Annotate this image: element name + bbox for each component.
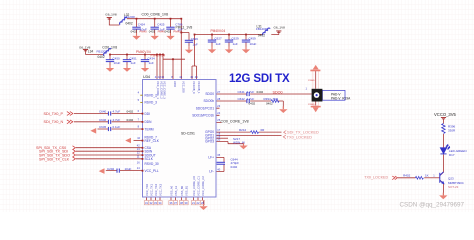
svg-text:VSS_A0: VSS_A0 [169, 185, 173, 196]
svg-text:0402: 0402 [126, 22, 133, 26]
svg-text:SDO1b/PCO1b: SDO1b/PCO1b [192, 114, 214, 118]
svg-text:G6_1V8: G6_1V8 [274, 25, 286, 29]
svg-text:0402: 0402 [266, 102, 273, 106]
svg-text:PGND: PGND [308, 80, 315, 82]
svg-text:0402: 0402 [149, 29, 156, 33]
svg-text:VCC_PLL: VCC_PLL [145, 169, 159, 173]
svg-text:0402: 0402 [165, 29, 172, 33]
svg-text:VCC_DDI: VCC_DDI [181, 81, 185, 93]
svg-text:PGND: PGND [308, 104, 315, 106]
svg-text:1uF: 1uF [216, 42, 221, 46]
svg-text:VCCOB_1: VCCOB_1 [197, 81, 201, 94]
svg-text:DDN: DDN [145, 120, 153, 124]
svg-text:C645: C645 [99, 125, 107, 129]
svg-text:WDN_IN: WDN_IN [233, 141, 245, 145]
svg-text:CO0_CORE_1V8: CO0_CORE_1V8 [142, 13, 169, 17]
svg-text:R212: R212 [239, 128, 247, 132]
svg-text:VCC_CORE_C1: VCC_CORE_C1 [196, 176, 200, 196]
svg-text:REF_CLK: REF_CLK [145, 139, 160, 143]
svg-text:1uF: 1uF [131, 61, 136, 65]
svg-text:C459: C459 [249, 37, 257, 41]
svg-text:VSS_A1: VSS_A1 [174, 185, 178, 196]
svg-text:PM40V.04: PM40V.04 [211, 29, 226, 33]
svg-text:10uF: 10uF [114, 61, 121, 65]
svg-text:C640: C640 [99, 110, 107, 114]
svg-text:R402: R402 [403, 173, 411, 177]
svg-text:CSDN @qq_29479697: CSDN @qq_29479697 [400, 201, 465, 208]
svg-text:VCCO_3V5: VCCO_3V5 [434, 112, 457, 117]
svg-text:PM40: PM40 [139, 29, 147, 33]
svg-text:RSVD_2: RSVD_2 [145, 93, 158, 97]
svg-text:SDI_TX0_N: SDI_TX0_N [44, 120, 64, 124]
svg-text:12G SDI TX: 12G SDI TX [229, 73, 290, 85]
svg-text:SDO0: SDO0 [205, 92, 214, 96]
svg-text:1uF: 1uF [233, 42, 238, 46]
svg-text:VCC_TX2: VCC_TX2 [154, 183, 158, 196]
svg-text:VCC_TX1: VCC_TX1 [149, 183, 153, 196]
svg-text:0402: 0402 [231, 165, 238, 169]
svg-text:0402: 0402 [131, 29, 138, 33]
svg-text:0.1uF: 0.1uF [113, 125, 121, 129]
svg-text:RSVD_3: RSVD_3 [145, 101, 158, 105]
svg-text:FB120R: FB120R [97, 49, 109, 53]
svg-text:10uF: 10uF [125, 167, 132, 171]
svg-text:VCC_CORE_C2: VCC_CORE_C2 [201, 176, 205, 196]
svg-text:0402: 0402 [98, 55, 105, 59]
svg-text:4.7uF: 4.7uF [113, 118, 121, 122]
svg-text:10uF: 10uF [250, 42, 257, 46]
svg-text:PM40: PM40 [173, 29, 181, 33]
svg-text:TERM: TERM [145, 127, 154, 131]
svg-text:C786: C786 [175, 23, 183, 27]
svg-text:SOT-23: SOT-23 [448, 185, 459, 189]
svg-text:SPI_SDI_TX_CLK: SPI_SDI_TX_CLK [39, 157, 70, 161]
svg-text:C627: C627 [215, 37, 223, 41]
svg-text:0402: 0402 [257, 90, 264, 94]
svg-text:GPO3: GPO3 [205, 140, 214, 144]
svg-text:C450: C450 [113, 56, 121, 60]
svg-text:MMBT3904: MMBT3904 [448, 181, 464, 185]
svg-text:SCLK: SCLK [145, 157, 154, 161]
svg-text:0402: 0402 [127, 118, 134, 122]
svg-text:VCC_CORE_C0: VCC_CORE_C0 [192, 176, 196, 196]
svg-text:FB120R: FB120R [124, 15, 136, 19]
svg-text:4.7uF: 4.7uF [247, 90, 255, 94]
svg-text:R394: R394 [264, 97, 272, 101]
svg-text:1uF: 1uF [193, 42, 198, 46]
svg-text:SDO0: SDO0 [273, 90, 283, 94]
svg-text:0402: 0402 [258, 33, 265, 37]
svg-text:C629: C629 [232, 37, 240, 41]
svg-text:LF+: LF+ [208, 156, 214, 160]
svg-text:SDO0b: SDO0b [204, 99, 215, 103]
svg-text:SDO1/PCO1: SDO1/PCO1 [196, 106, 214, 110]
svg-text:VSS_B0: VSS_B0 [180, 185, 184, 196]
svg-text:4.7uF: 4.7uF [247, 97, 255, 101]
svg-text:0402: 0402 [127, 110, 134, 114]
svg-text:VCCOB_0: VCCOB_0 [192, 81, 196, 94]
svg-text:C626: C626 [191, 37, 199, 41]
svg-text:TX0_LOCKED: TX0_LOCKED [364, 175, 388, 179]
svg-text:VCC_TX0: VCC_TX0 [145, 183, 149, 196]
svg-text:C451: C451 [130, 56, 138, 60]
svg-text:PAD-V_R19A: PAD-V_R19A [331, 96, 351, 100]
svg-text:C425: C425 [157, 23, 165, 27]
svg-text:C202: C202 [107, 167, 115, 171]
svg-text:LF-: LF- [209, 170, 214, 174]
svg-text:C641: C641 [238, 90, 246, 94]
svg-text:C642: C642 [238, 97, 246, 101]
svg-text:D17: D17 [449, 153, 455, 157]
svg-text:75R: 75R [273, 97, 279, 101]
svg-text:UDO: UDO [173, 81, 177, 87]
svg-text:VCC_CORE_3: VCC_CORE_3 [163, 81, 167, 99]
svg-text:CO0_CORE_1V8: CO0_CORE_1V8 [221, 119, 249, 123]
svg-text:SDI_TX0_P: SDI_TX0_P [44, 112, 64, 116]
svg-text:PM40V.04: PM40V.04 [136, 50, 151, 54]
svg-text:C646: C646 [99, 118, 107, 122]
svg-text:SD-C291: SD-C291 [181, 132, 195, 136]
svg-text:FB120R: FB120R [256, 27, 268, 31]
svg-text:VCC_TX3: VCC_TX3 [158, 183, 162, 196]
svg-text:U34: U34 [143, 75, 150, 79]
svg-text:RSVD_30: RSVD_30 [145, 162, 159, 166]
svg-text:G6_1V8: G6_1V8 [105, 13, 117, 17]
svg-text:1uF: 1uF [149, 61, 154, 65]
svg-text:VSS_B1: VSS_B1 [184, 185, 188, 196]
svg-text:TX0_LOCKED: TX0_LOCKED [287, 135, 312, 140]
svg-text:0402: 0402 [249, 102, 256, 106]
svg-text:330R: 330R [448, 129, 456, 133]
svg-text:C424: C424 [138, 23, 146, 27]
svg-text:1K: 1K [425, 174, 429, 178]
svg-text:4.7uF: 4.7uF [113, 110, 121, 114]
svg-text:L34: L34 [88, 50, 94, 54]
svg-text:DDI: DDI [145, 112, 151, 116]
